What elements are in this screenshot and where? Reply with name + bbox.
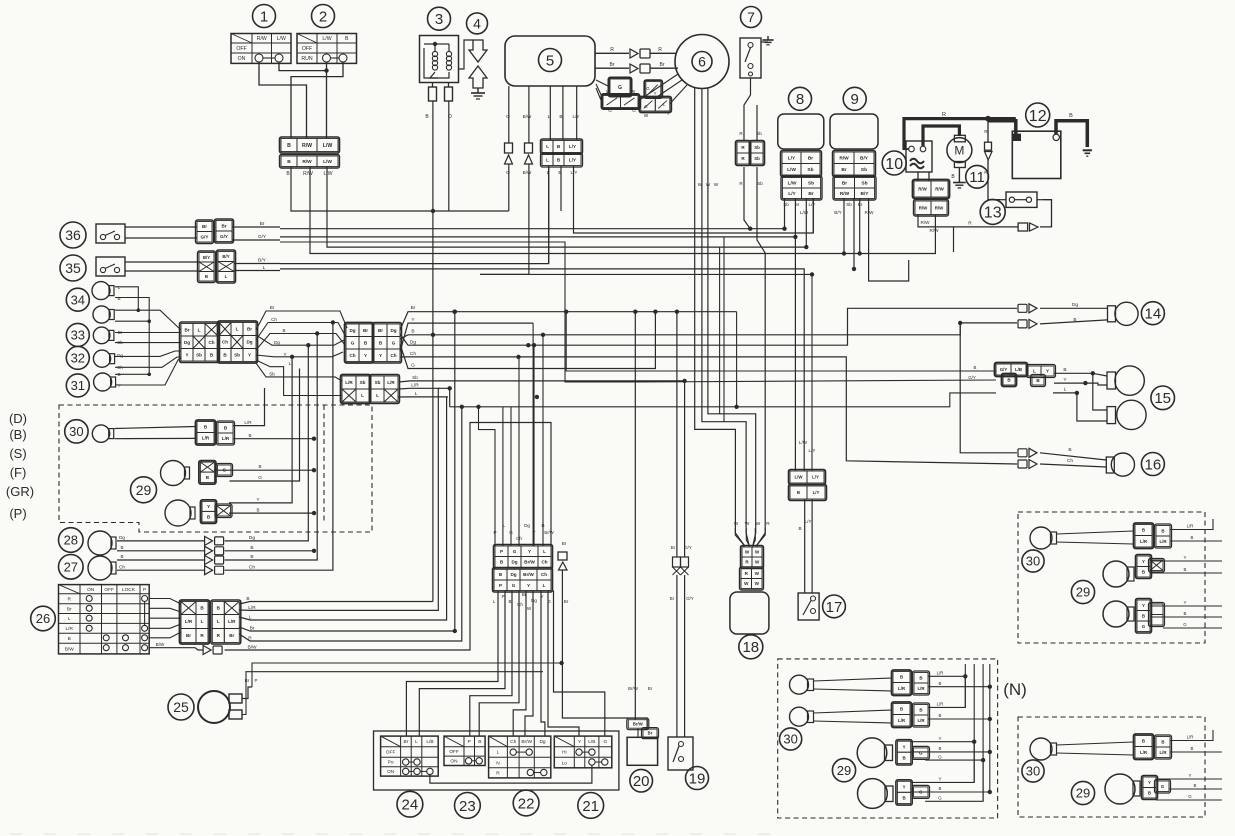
wire W1 — [695, 88, 744, 547]
svg-text:L/R: L/R — [1140, 750, 1148, 755]
wire 35b — [125, 270, 199, 272]
vertical deco a — [719, 247, 721, 414]
wire LRr — [1170, 519, 1213, 530]
svg-text:B/Y: B/Y — [834, 210, 841, 215]
svg-text:Br: Br — [250, 626, 255, 632]
svg-text:Sb: Sb — [807, 167, 813, 173]
connector below 7 — [736, 141, 765, 166]
bullet connector — [985, 142, 992, 150]
wire to 24 L — [419, 591, 505, 737]
junction — [532, 343, 536, 347]
svg-text:Sb: Sb — [846, 202, 852, 207]
bullet pair — [205, 546, 213, 555]
svg-text:30: 30 — [1026, 764, 1040, 779]
svg-text:Br: Br — [841, 167, 846, 173]
svg-text:27: 27 — [64, 559, 78, 574]
switch 22 table — [489, 736, 551, 778]
svg-text:L/B: L/B — [588, 739, 595, 745]
wire Sb7 — [756, 167, 758, 190]
wire L34a — [115, 287, 138, 310]
svg-text:Ch: Ch — [410, 351, 416, 357]
wire Dg32 — [115, 351, 181, 356]
svg-text:Br: Br — [229, 633, 234, 638]
numbered circle 24 — [397, 791, 423, 817]
junction — [1091, 371, 1095, 375]
wire Y 29b — [229, 357, 292, 503]
svg-text:B/W: B/W — [156, 642, 165, 647]
svg-text:Po: Po — [388, 760, 394, 766]
junction — [963, 674, 967, 678]
svg-text:L: L — [1064, 387, 1067, 393]
wire B34b — [115, 320, 149, 322]
junction — [988, 685, 992, 689]
svg-text:B: B — [797, 490, 800, 495]
connector 29b — [201, 500, 233, 524]
svg-text:B: B — [919, 675, 922, 680]
fuse 13 numbered circle — [980, 199, 1005, 224]
wire 25 — [242, 687, 252, 699]
junction — [147, 319, 151, 323]
wire — [279, 62, 327, 71]
wire — [1040, 200, 1052, 227]
numbered circle 34 — [66, 288, 89, 311]
connector 30r — [1134, 523, 1172, 549]
svg-text:10: 10 — [885, 156, 903, 173]
svg-text:Br: Br — [562, 541, 567, 546]
svg-text:G: G — [919, 750, 923, 755]
wire — [149, 624, 181, 628]
svg-text:M: M — [954, 143, 964, 157]
svg-text:L: L — [546, 158, 549, 163]
svg-text:O: O — [506, 114, 510, 120]
wire B/W out — [149, 648, 203, 650]
dashed enclosure meter lamps — [59, 405, 372, 532]
wire relay10 down — [917, 172, 919, 181]
numbered circle 22 — [513, 790, 539, 816]
wire — [596, 80, 610, 87]
svg-text:L/R: L/R — [1187, 735, 1194, 740]
wire to 22 BrW — [525, 591, 533, 737]
svg-text:L/R: L/R — [917, 686, 925, 691]
svg-text:L/Y: L/Y — [812, 475, 819, 480]
svg-text:Br: Br — [411, 305, 416, 311]
wire Y — [1054, 382, 1085, 384]
connector 29a — [199, 461, 233, 485]
wire B3 — [911, 751, 990, 753]
svg-text:B: B — [287, 143, 291, 149]
junction — [312, 511, 316, 515]
svg-text:Y: Y — [256, 497, 259, 502]
svg-text:L/R: L/R — [185, 619, 193, 624]
svg-text:L/Y: L/Y — [788, 191, 796, 197]
wire GY19b — [684, 575, 686, 737]
svg-text:17: 17 — [826, 599, 843, 616]
svg-text:23: 23 — [459, 798, 476, 815]
svg-text:22: 22 — [518, 795, 535, 812]
bulb 29b — [165, 500, 191, 526]
svg-text:B: B — [287, 159, 291, 165]
svg-text:Hi: Hi — [562, 750, 567, 756]
svg-text:W: W — [706, 182, 711, 188]
svg-text:L/R: L/R — [1140, 539, 1148, 544]
magneto 6 outer circle — [675, 35, 729, 89]
svg-text:Ch: Ch — [119, 565, 125, 570]
bus verticals — [964, 664, 966, 707]
svg-text:G: G — [1142, 624, 1146, 629]
wire L5 — [549, 86, 551, 140]
svg-text:B/Y: B/Y — [203, 255, 210, 260]
junction — [535, 395, 539, 399]
wire B meter — [400, 335, 433, 339]
connector 30r2 — [1134, 734, 1172, 760]
svg-text:Br/W: Br/W — [524, 560, 535, 565]
svg-text:Ch: Ch — [1067, 458, 1073, 464]
svg-text:L/Y: L/Y — [813, 490, 820, 495]
wire Ch meter — [400, 357, 1017, 464]
wire L/R out — [239, 388, 438, 610]
svg-text:20: 20 — [633, 773, 650, 790]
meter connector 3 — [341, 375, 400, 404]
wire 36a — [125, 226, 197, 228]
junction — [988, 717, 992, 721]
svg-text:R/W: R/W — [865, 210, 875, 215]
wire 9 rw — [859, 198, 861, 254]
bullet pair — [1018, 460, 1027, 468]
junction — [748, 227, 752, 231]
svg-text:B: B — [282, 328, 285, 333]
svg-text:Y: Y — [939, 736, 942, 741]
wire G 29a — [230, 369, 300, 482]
svg-text:W: W — [745, 550, 750, 555]
junction — [453, 310, 457, 314]
wire R — [595, 52, 629, 54]
wiresr2 — [1169, 788, 1222, 790]
wire LY5b — [574, 166, 814, 233]
numbered circle 30 — [65, 420, 88, 443]
lamp 15 numbered circle — [1151, 386, 1175, 410]
svg-text:G/Y: G/Y — [220, 234, 228, 239]
svg-text:W: W — [606, 89, 611, 94]
wire 24 to 21 — [430, 765, 592, 783]
svg-text:L/Y: L/Y — [569, 158, 576, 163]
svg-text:L/Y: L/Y — [809, 448, 816, 453]
svg-text:Ch: Ch — [271, 317, 277, 322]
svg-text:R: R — [496, 771, 500, 777]
svg-text:OFF: OFF — [449, 749, 459, 755]
wire Br — [595, 67, 629, 69]
lamp 29b bulb — [858, 779, 888, 809]
switch 17 body — [798, 593, 819, 620]
svg-text:Dg: Dg — [531, 598, 537, 603]
svg-text:36: 36 — [65, 227, 81, 243]
svg-text:L/R: L/R — [222, 436, 230, 441]
svg-text:B: B — [248, 433, 251, 438]
svg-text:Y: Y — [379, 353, 382, 358]
wire — [149, 632, 181, 638]
junction — [564, 310, 568, 314]
svg-text:Br: Br — [671, 545, 676, 550]
wire B4 — [911, 791, 990, 793]
junction — [985, 116, 991, 122]
svg-text:R: R — [610, 47, 614, 53]
svg-text:B: B — [902, 796, 905, 801]
svg-text:W: W — [644, 113, 649, 118]
wire G meter — [400, 312, 655, 369]
bulb 25 — [198, 691, 230, 723]
lamp 29rr — [1105, 774, 1135, 804]
junction — [972, 740, 976, 744]
svg-text:L/R: L/R — [345, 380, 353, 385]
wires3 — [1150, 605, 1222, 607]
svg-text:W: W — [755, 571, 760, 576]
CDI unit 5 body — [505, 36, 595, 86]
switch 17 numbered circle — [823, 595, 846, 618]
junction9b — [852, 267, 856, 271]
svg-text:Dg: Dg — [511, 560, 517, 565]
wire Y conn — [532, 323, 534, 546]
svg-text:Dg: Dg — [1072, 302, 1078, 308]
svg-text:B: B — [939, 786, 942, 791]
junction9 — [842, 251, 846, 255]
wire L — [1053, 392, 1077, 394]
svg-text:Ch: Ch — [222, 340, 228, 345]
svg-text:6: 6 — [698, 54, 706, 70]
wire to 24 Br — [406, 591, 498, 737]
relay 9 body — [830, 114, 878, 149]
svg-text:L/R: L/R — [917, 718, 925, 723]
dashed box right1 — [1018, 512, 1205, 643]
svg-text:L: L — [118, 285, 121, 290]
svg-text:26: 26 — [36, 611, 50, 626]
lamp 29a bulb — [857, 738, 887, 768]
wire W2 — [702, 88, 749, 547]
battery 12 body — [1012, 131, 1061, 178]
central connector — [493, 545, 553, 593]
wire W3 — [708, 88, 756, 547]
wire G/Y to 15b — [640, 380, 996, 382]
junction — [306, 343, 310, 347]
relay 8 body — [778, 114, 824, 149]
svg-text:9: 9 — [851, 91, 859, 108]
svg-text:Br: Br — [648, 686, 653, 691]
numbered circle 28 — [59, 528, 84, 553]
spark plug caps — [429, 87, 437, 101]
svg-text:29: 29 — [136, 482, 152, 498]
wire G3 — [925, 759, 983, 761]
switch 7 numbered circle — [741, 7, 762, 28]
wire B — [928, 686, 990, 688]
connector 29d — [896, 780, 930, 805]
switch 1 table — [231, 34, 291, 64]
svg-text:Br: Br — [270, 305, 275, 310]
rectifier 18 body — [730, 592, 769, 634]
wire — [326, 62, 328, 138]
handlebar switch outline — [374, 731, 619, 790]
svg-text:R: R — [942, 112, 946, 118]
svg-text:W: W — [755, 581, 760, 586]
component 20 numbered circle — [630, 769, 653, 792]
connector 29c — [896, 740, 930, 765]
wire Br cont — [562, 600, 647, 729]
svg-text:35: 35 — [65, 260, 81, 276]
svg-text:11: 11 — [969, 169, 985, 186]
svg-text:W: W — [755, 550, 760, 555]
wire BrW20 — [634, 312, 636, 720]
bulb 34a — [92, 282, 110, 300]
wire Br33 — [115, 332, 181, 334]
svg-text:L: L — [548, 114, 551, 120]
wire 8 lw — [805, 198, 807, 247]
svg-text:R: R — [248, 636, 252, 642]
svg-text:B: B — [250, 545, 253, 551]
lamp 14 numbered circle — [1141, 302, 1164, 325]
svg-text:29: 29 — [837, 763, 851, 778]
numbered circle 27 — [59, 555, 84, 580]
svg-text:Br: Br — [670, 596, 675, 601]
svg-text:G: G — [392, 340, 396, 345]
numbered circle 29r — [1071, 580, 1094, 603]
svg-text:(P): (P) — [9, 506, 26, 521]
CDI pickup connector a — [602, 78, 640, 114]
svg-text:30: 30 — [1026, 554, 1040, 569]
lamp 16 bulb — [1111, 453, 1134, 476]
svg-text:B: B — [120, 554, 123, 559]
svg-text:Ch: Ch — [517, 602, 523, 607]
svg-text:B: B — [1063, 367, 1066, 373]
svg-text:R/W: R/W — [302, 143, 312, 149]
svg-text:Dg: Dg — [510, 572, 516, 577]
svg-text:Y: Y — [283, 352, 286, 357]
wire 7 down2 — [756, 105, 758, 140]
wire GY19 — [684, 381, 686, 557]
svg-text:L/Y: L/Y — [573, 114, 580, 119]
connector 30bb — [892, 702, 930, 728]
svg-text:G: G — [938, 796, 942, 801]
wire L conn — [502, 407, 504, 546]
svg-text:B: B — [902, 755, 905, 760]
svg-text:W: W — [698, 182, 703, 188]
numbered circle 32 — [66, 346, 89, 369]
junction — [331, 320, 335, 324]
starter relay 10 body — [906, 141, 932, 172]
connector 29rr — [1142, 776, 1171, 800]
svg-text:B/Y: B/Y — [258, 258, 267, 264]
svg-text:B: B — [974, 365, 977, 370]
svg-text:Y: Y — [1189, 773, 1192, 778]
bullet — [681, 557, 689, 567]
svg-text:8: 8 — [796, 91, 804, 108]
svg-text:L: L — [361, 393, 364, 398]
svg-text:B/W: B/W — [247, 645, 257, 651]
wire Y31 — [115, 358, 181, 385]
wire 17b — [811, 499, 813, 593]
svg-text:Y: Y — [939, 777, 942, 782]
wire Br out — [239, 312, 454, 631]
vertical mid — [736, 312, 738, 407]
wire Br — [650, 67, 678, 69]
svg-text:Sb: Sb — [861, 180, 867, 186]
svg-text:ON: ON — [87, 587, 95, 593]
svg-text:(F): (F) — [10, 465, 27, 480]
wire coil B — [432, 101, 434, 602]
dashed box right2 — [1018, 717, 1205, 817]
svg-text:L/W: L/W — [799, 440, 808, 445]
svg-text:G/Y: G/Y — [201, 234, 209, 239]
svg-text:G: G — [512, 583, 516, 588]
svg-text:L: L — [198, 327, 201, 332]
svg-text:13: 13 — [984, 205, 1002, 222]
wire R18 — [757, 280, 765, 547]
connector below 5 — [541, 139, 583, 167]
switch 36 numbered circle — [60, 222, 86, 248]
svg-text:L: L — [201, 619, 204, 624]
wire 9 by — [869, 198, 909, 281]
junction — [988, 750, 992, 754]
wire — [149, 617, 181, 619]
svg-text:B: B — [411, 329, 414, 335]
svg-text:L/R: L/R — [66, 626, 74, 632]
svg-text:33: 33 — [71, 328, 85, 343]
thick wire relay to motor — [923, 126, 959, 146]
wire BW5 — [528, 86, 530, 143]
svg-text:B: B — [919, 707, 922, 712]
svg-text:R/W: R/W — [840, 191, 850, 197]
bullet pair — [1018, 304, 1027, 312]
svg-text:Y: Y — [667, 111, 670, 116]
svg-text:15: 15 — [1154, 390, 1171, 407]
bullet pair — [205, 556, 213, 565]
svg-text:B/W: B/W — [523, 170, 532, 175]
relay 8 numbered circle — [789, 87, 812, 110]
svg-text:G: G — [632, 108, 636, 113]
svg-text:Y: Y — [364, 353, 367, 358]
bullet pair — [1018, 449, 1027, 457]
diode connector — [630, 64, 638, 73]
wire L mid — [256, 360, 342, 396]
svg-text:L/R: L/R — [898, 718, 906, 723]
svg-text:OFF: OFF — [386, 750, 396, 756]
dashed box bottom — [778, 659, 998, 818]
thick wire battery positive — [988, 121, 1016, 134]
junction — [633, 310, 637, 314]
bullet pair — [1018, 320, 1027, 328]
svg-text:R/W: R/W — [935, 187, 944, 192]
svg-text:Br: Br — [404, 739, 409, 745]
svg-text:B: B — [258, 464, 261, 469]
svg-text:G: G — [644, 104, 647, 109]
svg-text:G: G — [1161, 784, 1165, 789]
battery 12 numbered circle — [1026, 103, 1050, 127]
ground below 4 — [477, 88, 479, 93]
svg-text:G: G — [351, 340, 355, 345]
svg-text:B: B — [1142, 613, 1145, 618]
svg-text:W: W — [744, 581, 749, 586]
starter motor M — [954, 135, 965, 142]
svg-text:(S): (S) — [9, 446, 26, 461]
svg-text:L/W: L/W — [323, 143, 333, 149]
svg-text:(B): (B) — [9, 427, 26, 442]
wire Br — [1170, 540, 1222, 542]
svg-text:L/B: L/B — [1015, 367, 1022, 372]
svg-text:Dg: Dg — [410, 340, 416, 346]
connector 15 — [995, 363, 1056, 387]
svg-text:P: P — [255, 678, 258, 683]
wire Y mid — [256, 352, 343, 357]
wire — [638, 74, 678, 101]
numbered circle 25 — [168, 694, 194, 720]
svg-text:Sb: Sb — [196, 352, 202, 357]
svg-text:OFF: OFF — [236, 46, 246, 52]
